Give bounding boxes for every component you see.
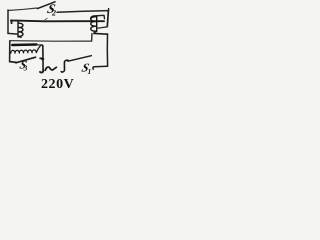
- wire inner rail: [11, 20, 104, 23]
- S1 right contact hook: [93, 67, 94, 70]
- wire to coil L1 bottom: [8, 32, 18, 35]
- AC terminal right (hook post): [61, 60, 68, 72]
- wire bar-end thin: [37, 44, 42, 46]
- svg-text:2: 2: [51, 9, 56, 18]
- wire middle horizontal: [10, 40, 91, 43]
- switch S3 label: [18, 59, 29, 72]
- wire lower-left vertical: [9, 41, 11, 62]
- wire bell bottom to right: [94, 32, 108, 35]
- junction dot: [41, 57, 44, 60]
- svg-text:3: 3: [23, 65, 28, 73]
- wire top-left rail: [8, 8, 37, 11]
- wire bottom-right to S1 contact: [94, 65, 107, 68]
- svg-text:220V: 220V: [41, 77, 74, 89]
- coil L2 bell (right): [91, 16, 97, 32]
- wire bell bottom drop: [91, 34, 93, 41]
- AC terminal left hook: [40, 70, 43, 73]
- switch S3 blade: [16, 57, 36, 63]
- wire outer right side (corner overshoot): [108, 9, 110, 11]
- stray mark on rail: [44, 18, 47, 20]
- switch S1 blade: [68, 56, 91, 62]
- electromagnet core bar: [12, 43, 36, 46]
- wire bar corner down to terminal: [41, 45, 43, 71]
- wire top rail right of S2: [57, 11, 108, 13]
- switch S3 contact tick: [40, 57, 43, 60]
- wire right-to-coil horizontal: [98, 27, 107, 28]
- wire lower-left bottom: [10, 61, 17, 64]
- wire outer right vertical upper: [107, 10, 108, 26]
- wire left vertical outer: [7, 10, 9, 33]
- wire right vertical lower: [106, 34, 108, 66]
- svg-text:1: 1: [88, 67, 92, 76]
- electromagnet coil bumps: [11, 46, 40, 53]
- switch S1 label: [80, 61, 91, 75]
- coil L2 bell (right) top lead: [91, 15, 105, 18]
- switch S2 blade: [38, 2, 56, 9]
- switch S2 label: [46, 1, 57, 16]
- AC tilde symbol: [45, 67, 56, 70]
- coil L1 (upper-left): [18, 21, 23, 37]
